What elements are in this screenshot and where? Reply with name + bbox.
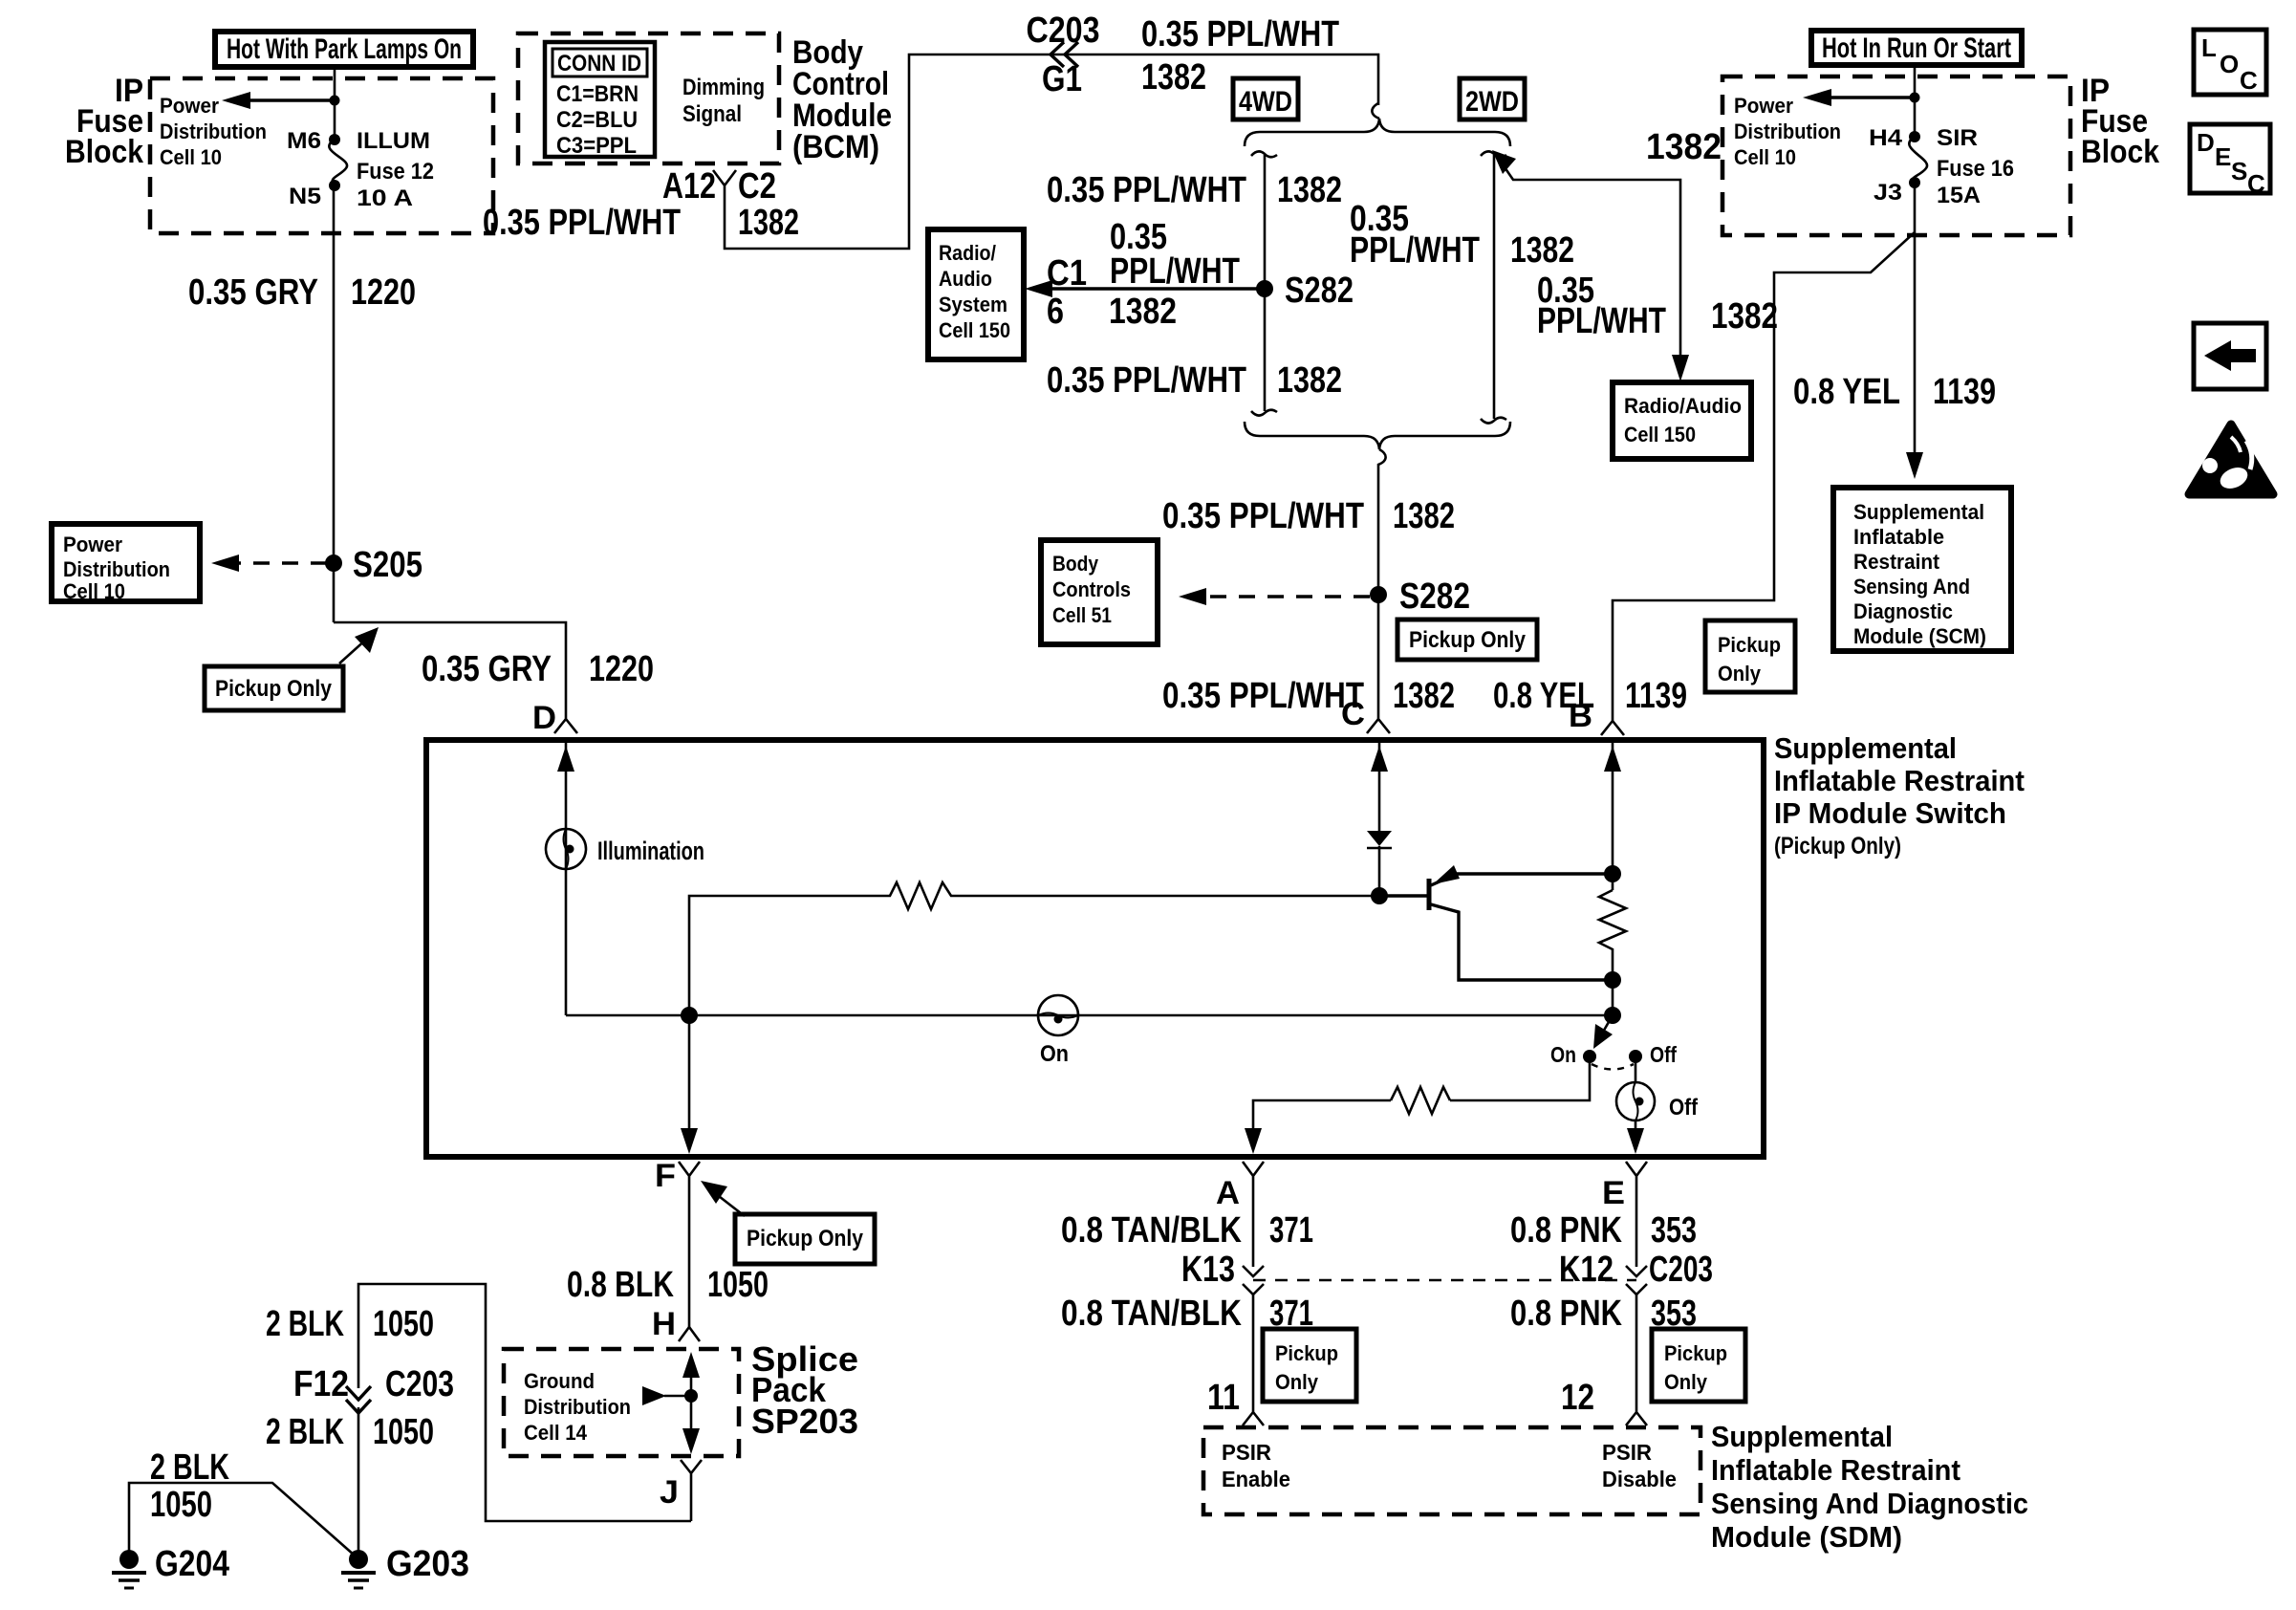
reference box: DESC — [2190, 124, 2270, 193]
svg-text:B: B — [1569, 698, 1592, 734]
svg-text:Power: Power — [160, 94, 219, 118]
component box: Power Distribution Cell 10 — [52, 524, 200, 601]
callout box: Pickup Only (F) — [735, 1214, 875, 1264]
svg-text:O: O — [2220, 50, 2239, 78]
svg-text:Hot In Run Or Start: Hot In Run Or Start — [1822, 33, 2011, 64]
svg-text:11: 11 — [1207, 1378, 1240, 1418]
svg-text:PSIR: PSIR — [1602, 1440, 1652, 1465]
transistor Q1 collector — [1431, 904, 1613, 980]
svg-text:M6: M6 — [287, 128, 321, 154]
svg-text:J3: J3 — [1874, 180, 1902, 206]
svg-text:On: On — [1550, 1042, 1576, 1067]
resistor R2 (vertical) — [1599, 890, 1626, 1015]
svg-text:D: D — [532, 700, 556, 736]
svg-text:PPL/WHT: PPL/WHT — [1110, 251, 1240, 292]
svg-text:Block: Block — [2081, 134, 2159, 170]
node: junction for power distribution arrow — [1910, 93, 1920, 103]
ground G204 — [119, 1550, 139, 1569]
svg-text:353: 353 — [1651, 1210, 1697, 1251]
svg-text:1382: 1382 — [1393, 496, 1455, 536]
label box: Hot In Run Or Start — [1811, 31, 2022, 65]
svg-text:1382: 1382 — [738, 203, 799, 243]
svg-text:L: L — [2201, 33, 2217, 62]
connector A (Y below box) — [1243, 1162, 1264, 1267]
connector F (Y below box) — [679, 1162, 700, 1327]
svg-text:Pickup: Pickup — [1275, 1341, 1338, 1365]
svg-text:Distribution: Distribution — [63, 557, 170, 581]
svg-text:Restraint: Restraint — [1853, 550, 1940, 574]
lamp: Illumination — [546, 829, 586, 869]
svg-text:1220: 1220 — [351, 272, 416, 313]
svg-text:Supplemental: Supplemental — [1711, 1420, 1893, 1453]
node: diode/base junction — [1371, 887, 1388, 904]
node: emitter junction — [1604, 865, 1621, 882]
svg-text:N5: N5 — [289, 184, 321, 209]
wire: from Hot box into fuse block — [1914, 65, 1917, 137]
svg-text:(Pickup Only): (Pickup Only) — [1774, 833, 1901, 859]
svg-text:1139: 1139 — [1933, 372, 1996, 412]
callout box: Pickup Only (12) — [1652, 1329, 1745, 1402]
svg-text:Cell 10: Cell 10 — [1734, 145, 1796, 169]
svg-text:ILLUM: ILLUM — [357, 128, 430, 154]
svg-text:0.35 PPL/WHT: 0.35 PPL/WHT — [1047, 170, 1246, 210]
arrow from Pickup Only box to wire — [339, 639, 367, 664]
transistor Q1 emitter with arrow toward base — [1431, 874, 1613, 885]
svg-text:0.35 PPL/WHT: 0.35 PPL/WHT — [1162, 496, 1364, 536]
svg-text:Radio/: Radio/ — [939, 241, 996, 265]
svg-text:Cell 150: Cell 150 — [1624, 423, 1696, 446]
diode D1 — [1367, 831, 1392, 846]
wire: S282 to Radio/Audio System (C1 arrow) — [1046, 287, 1265, 290]
svg-text:Fuse 16: Fuse 16 — [1937, 156, 2014, 182]
wire: J to F12/C203 to G203 — [358, 1284, 691, 1521]
top brace — [1245, 119, 1510, 146]
svg-text:Pickup Only: Pickup Only — [747, 1226, 864, 1251]
wire: BCM dimming signal to C203 chevrons and bracket — [725, 54, 1378, 249]
svg-text:Inflatable Restraint: Inflatable Restraint — [1711, 1453, 1960, 1487]
svg-text:S: S — [2231, 157, 2247, 185]
svg-text:0.35 PPL/WHT: 0.35 PPL/WHT — [483, 203, 681, 243]
resistor R3 (A leg) — [1391, 1087, 1450, 1114]
svg-text:1382: 1382 — [1393, 676, 1455, 716]
svg-text:C: C — [2247, 169, 2265, 198]
svg-text:Supplemental: Supplemental — [1774, 731, 1957, 765]
svg-text:CONN ID: CONN ID — [557, 51, 641, 76]
svg-text:0.8 TAN/BLK: 0.8 TAN/BLK — [1061, 1294, 1242, 1334]
svg-text:SP203: SP203 — [751, 1402, 858, 1441]
callout box: Pickup Only (center) — [1397, 620, 1537, 660]
svg-text:On: On — [1040, 1041, 1069, 1067]
wire: 0.35 GRY 1220 down to S205 — [333, 185, 336, 622]
svg-text:Power: Power — [63, 533, 122, 556]
svg-text:Dimming: Dimming — [682, 75, 765, 100]
svg-text:2 BLK: 2 BLK — [266, 1304, 344, 1344]
svg-text:Off: Off — [1650, 1042, 1677, 1067]
svg-text:Module (SCM): Module (SCM) — [1853, 624, 1986, 648]
svg-text:12: 12 — [1561, 1378, 1594, 1418]
connector C203 dashed line — [1253, 1279, 1636, 1281]
connector B (Y into box) — [1601, 712, 1624, 735]
svg-text:0.35 GRY: 0.35 GRY — [422, 649, 552, 689]
svg-text:Illumination: Illumination — [597, 837, 704, 865]
svg-text:K13: K13 — [1181, 1250, 1235, 1290]
arrow: ground distribution pointer — [642, 1386, 666, 1405]
svg-text:Audio: Audio — [939, 267, 992, 291]
svg-text:Radio/Audio: Radio/Audio — [1624, 394, 1742, 418]
IP fuse block (right) dashed box — [1722, 76, 2070, 235]
svg-text:1220: 1220 — [589, 649, 654, 689]
lamp: Off — [1616, 1082, 1655, 1120]
svg-text:C203: C203 — [1649, 1250, 1713, 1290]
arrow from Pickup Only to F wire — [715, 1193, 745, 1216]
svg-text:0.8 YEL: 0.8 YEL — [1793, 372, 1900, 412]
connector F12/C203 chevrons — [346, 1386, 371, 1413]
svg-text:Cell 14: Cell 14 — [524, 1421, 588, 1445]
svg-text:1382: 1382 — [1109, 292, 1177, 332]
svg-text:G203: G203 — [386, 1544, 469, 1584]
svg-text:C1: C1 — [1047, 253, 1087, 294]
svg-text:Fuse 12: Fuse 12 — [357, 159, 434, 185]
callout box: Pickup Only (right) — [1705, 620, 1795, 692]
option label box: 2WD — [1460, 78, 1525, 120]
svg-text:Block: Block — [65, 134, 143, 170]
svg-text:1382: 1382 — [1141, 57, 1206, 98]
svg-text:Cell 10: Cell 10 — [63, 579, 125, 603]
svg-text:Hot With Park Lamps On: Hot With Park Lamps On — [227, 33, 462, 65]
svg-text:S282: S282 — [1285, 271, 1354, 311]
svg-text:Only: Only — [1664, 1370, 1708, 1394]
splice S282 (lower) — [1370, 586, 1387, 603]
CONN ID table — [545, 42, 655, 157]
callout box: Pickup Only (left) — [205, 666, 343, 710]
svg-text:2WD: 2WD — [1465, 86, 1519, 118]
node: junction F branch — [681, 1007, 698, 1024]
wire hook below bottom brace and C wire — [1378, 449, 1386, 708]
svg-text:S205: S205 — [353, 545, 422, 585]
svg-text:A: A — [1216, 1175, 1240, 1211]
svg-text:C2: C2 — [738, 166, 776, 207]
left option bracket — [1251, 151, 1277, 157]
connector E (Y below box) — [1626, 1162, 1647, 1267]
svg-text:Diagnostic: Diagnostic — [1853, 599, 1953, 623]
svg-text:1382: 1382 — [1277, 170, 1342, 210]
svg-text:Power: Power — [1734, 94, 1793, 118]
svg-text:Cell 150: Cell 150 — [939, 318, 1010, 342]
svg-text:Pickup Only: Pickup Only — [1409, 627, 1527, 653]
lamp: On — [1038, 995, 1078, 1035]
connector chevrons at K13 — [1243, 1266, 1264, 1295]
svg-text:0.35 GRY: 0.35 GRY — [188, 272, 318, 313]
svg-text:Only: Only — [1718, 662, 1762, 685]
fuse ILLUM Fuse 12 10A — [329, 134, 340, 145]
svg-text:G1: G1 — [1042, 59, 1082, 99]
svg-text:Inflatable: Inflatable — [1853, 525, 1944, 549]
svg-text:0.35 PPL/WHT: 0.35 PPL/WHT — [1162, 676, 1364, 716]
svg-text:Cell 10: Cell 10 — [160, 145, 222, 169]
svg-text:Sensing And Diagnostic: Sensing And Diagnostic — [1711, 1487, 2028, 1520]
connector J (Y below splice pack) — [681, 1460, 702, 1521]
wire: Off contact to Off lamp — [1635, 1056, 1637, 1082]
svg-text:Pickup: Pickup — [1718, 633, 1781, 657]
svg-text:15A: 15A — [1937, 183, 1981, 208]
reference box: LOC — [2194, 30, 2266, 95]
svg-text:0.8 PNK: 0.8 PNK — [1510, 1210, 1622, 1251]
component box: SIR IP Module Switch — [426, 740, 1764, 1157]
svg-text:Distribution: Distribution — [160, 120, 267, 143]
svg-text:371: 371 — [1269, 1210, 1313, 1251]
bottom brace — [1245, 422, 1510, 449]
svg-text:(BCM): (BCM) — [792, 129, 879, 165]
node: splice junction SP203 — [684, 1389, 698, 1403]
resistor R1 (base row) — [689, 882, 1379, 1015]
svg-text:D: D — [2197, 128, 2215, 157]
wire: resistor to A leg with arrow — [1253, 1100, 1391, 1145]
wire: Off lamp to E with arrow — [1635, 1120, 1637, 1145]
splice S282 on left bracket — [1256, 280, 1273, 297]
svg-text:K12: K12 — [1559, 1250, 1614, 1290]
svg-text:2 BLK: 2 BLK — [266, 1412, 344, 1452]
wire: 0.8 YEL down to SCM with arrow — [1914, 183, 1917, 463]
connector 12 (Y into SDM) — [1626, 1407, 1647, 1425]
SDM dashed box — [1203, 1427, 1700, 1514]
svg-text:0.8 TAN/BLK: 0.8 TAN/BLK — [1061, 1210, 1242, 1251]
svg-text:Inflatable Restraint: Inflatable Restraint — [1774, 764, 2025, 797]
wire: D leg inside box — [565, 743, 568, 1015]
svg-text:1139: 1139 — [1625, 676, 1687, 716]
component box: Radio/Audio System Cell 150 — [928, 229, 1024, 359]
svg-text:1382: 1382 — [1711, 296, 1778, 337]
svg-text:C1=BRN: C1=BRN — [556, 81, 639, 107]
splice wire inside SP203 with arrows — [690, 1360, 693, 1449]
connector C203 chevrons — [1051, 42, 1078, 67]
svg-text:1050: 1050 — [373, 1412, 434, 1452]
node: collector junction — [1604, 971, 1621, 989]
switch contact On — [1583, 1050, 1596, 1063]
svg-text:H4: H4 — [1869, 125, 1903, 151]
svg-text:Supplemental: Supplemental — [1853, 500, 1984, 524]
svg-text:Body: Body — [1052, 552, 1099, 576]
connector A12/C2 at BCM — [713, 170, 736, 207]
svg-text:Pickup Only: Pickup Only — [215, 676, 333, 702]
component box: Radio/Audio Cell 150 — [1613, 382, 1751, 459]
svg-text:Distribution: Distribution — [1734, 120, 1841, 143]
option label box: 4WD — [1233, 78, 1298, 120]
svg-text:1050: 1050 — [707, 1265, 769, 1305]
svg-text:Signal: Signal — [682, 101, 742, 127]
wire: S205 to connector D — [334, 622, 566, 708]
svg-text:4WD: 4WD — [1239, 86, 1292, 118]
svg-text:Enable: Enable — [1222, 1467, 1290, 1491]
wire: G204 branch — [129, 1483, 355, 1556]
wire: from Hot box into fuse block — [334, 67, 336, 140]
connector C (Y into box) — [1367, 708, 1390, 733]
svg-text:E: E — [2215, 142, 2231, 171]
wire: On row — [566, 1014, 1613, 1017]
fuse SIR Fuse 16 15A — [1909, 131, 1920, 142]
svg-text:SIR: SIR — [1937, 125, 1978, 151]
dashed arrow to Body Controls Cell 51 — [1200, 595, 1370, 598]
svg-text:Off: Off — [1669, 1095, 1699, 1120]
switch contact Off — [1629, 1050, 1642, 1063]
svg-text:Ground: Ground — [524, 1369, 595, 1393]
svg-text:2 BLK: 2 BLK — [150, 1447, 229, 1488]
wire hook into top brace — [1372, 103, 1379, 119]
svg-text:C: C — [2240, 66, 2258, 95]
label box: Hot With Park Lamps On — [215, 32, 473, 67]
svg-text:IP Module Switch: IP Module Switch — [1774, 796, 2006, 830]
svg-text:0.35 PPL/WHT: 0.35 PPL/WHT — [1047, 360, 1246, 401]
node: junction for power distribution arrow — [330, 96, 340, 106]
splice pack SP203 dashed box — [504, 1349, 739, 1456]
svg-text:1382: 1382 — [1510, 230, 1574, 271]
reference box: back arrow — [2194, 323, 2266, 389]
svg-text:C203: C203 — [385, 1364, 454, 1404]
svg-text:Module (SDM): Module (SDM) — [1711, 1520, 1902, 1554]
svg-text:PSIR: PSIR — [1222, 1440, 1271, 1465]
component box: SCM — [1833, 488, 2011, 651]
svg-text:Distribution: Distribution — [524, 1395, 631, 1419]
svg-text:G204: G204 — [155, 1544, 229, 1584]
svg-text:C2=BLU: C2=BLU — [556, 107, 638, 133]
right option bracket — [1481, 151, 1506, 157]
wire: dashed arrow to Power Distribution Cell 10 — [232, 561, 327, 564]
svg-text:1382: 1382 — [1646, 127, 1722, 167]
connector chevrons at K12 — [1626, 1266, 1647, 1295]
svg-text:System: System — [939, 293, 1007, 316]
svg-text:C: C — [1341, 696, 1365, 732]
wire: arrow to Power Distribution — [1826, 96, 1915, 98]
transistor Q1 (PNP) base bar — [1427, 879, 1432, 910]
ground G203 — [349, 1550, 368, 1569]
svg-text:1050: 1050 — [373, 1304, 434, 1344]
splice S205 — [325, 555, 342, 572]
svg-text:J: J — [660, 1474, 679, 1511]
svg-text:PPL/WHT: PPL/WHT — [1537, 301, 1666, 341]
connector D (Y into box) — [554, 708, 577, 733]
callout box: Pickup Only (11) — [1263, 1329, 1356, 1402]
svg-text:Disable: Disable — [1602, 1467, 1677, 1491]
svg-text:Controls: Controls — [1052, 577, 1131, 601]
svg-text:0.8 BLK: 0.8 BLK — [567, 1265, 674, 1305]
dashed arc between contacts — [1592, 1064, 1634, 1070]
connector H (Y into splice pack) — [679, 1327, 700, 1341]
svg-text:S282: S282 — [1399, 577, 1470, 617]
svg-text:0.8 PNK: 0.8 PNK — [1510, 1294, 1622, 1334]
switch arm with arrow — [1598, 1015, 1613, 1040]
svg-text:F: F — [655, 1158, 676, 1194]
svg-text:Pickup: Pickup — [1664, 1341, 1727, 1365]
BCM dashed box — [518, 33, 779, 163]
icon: airbag warning triangle — [2189, 424, 2273, 494]
svg-text:1050: 1050 — [150, 1485, 212, 1525]
svg-text:Only: Only — [1275, 1370, 1319, 1394]
node: switch pivot junction — [1604, 1007, 1621, 1024]
svg-text:C203: C203 — [1027, 11, 1100, 51]
wire: B leg inside box — [1612, 743, 1614, 890]
svg-text:PPL/WHT: PPL/WHT — [1350, 230, 1480, 271]
wire: branch from fuse block to B — [1613, 232, 1915, 712]
svg-text:0.35 PPL/WHT: 0.35 PPL/WHT — [1141, 14, 1339, 54]
svg-text:Sensing And: Sensing And — [1853, 575, 1970, 598]
svg-text:C3=PPL: C3=PPL — [556, 133, 637, 159]
svg-text:E: E — [1602, 1175, 1625, 1211]
wire: C leg inside box — [1378, 743, 1381, 831]
svg-text:10 A: 10 A — [357, 185, 413, 211]
IP fuse block (left) dashed box — [150, 78, 493, 233]
svg-text:1382: 1382 — [1277, 360, 1342, 401]
connector 11 (Y into SDM) — [1243, 1407, 1264, 1425]
svg-text:H: H — [652, 1306, 676, 1342]
wire: On contact down to resistor row — [1450, 1056, 1590, 1100]
component box: Body Controls Cell 51 — [1041, 540, 1158, 644]
wire: F leg down with arrow — [688, 1015, 691, 1145]
svg-text:A12: A12 — [662, 166, 716, 207]
svg-text:Cell 51: Cell 51 — [1052, 603, 1112, 627]
svg-text:6: 6 — [1047, 292, 1064, 332]
wire: arrow to Power Distribution — [245, 98, 335, 101]
svg-text:F12: F12 — [293, 1364, 349, 1404]
2WD branch arrow into bracket — [1492, 150, 1516, 174]
